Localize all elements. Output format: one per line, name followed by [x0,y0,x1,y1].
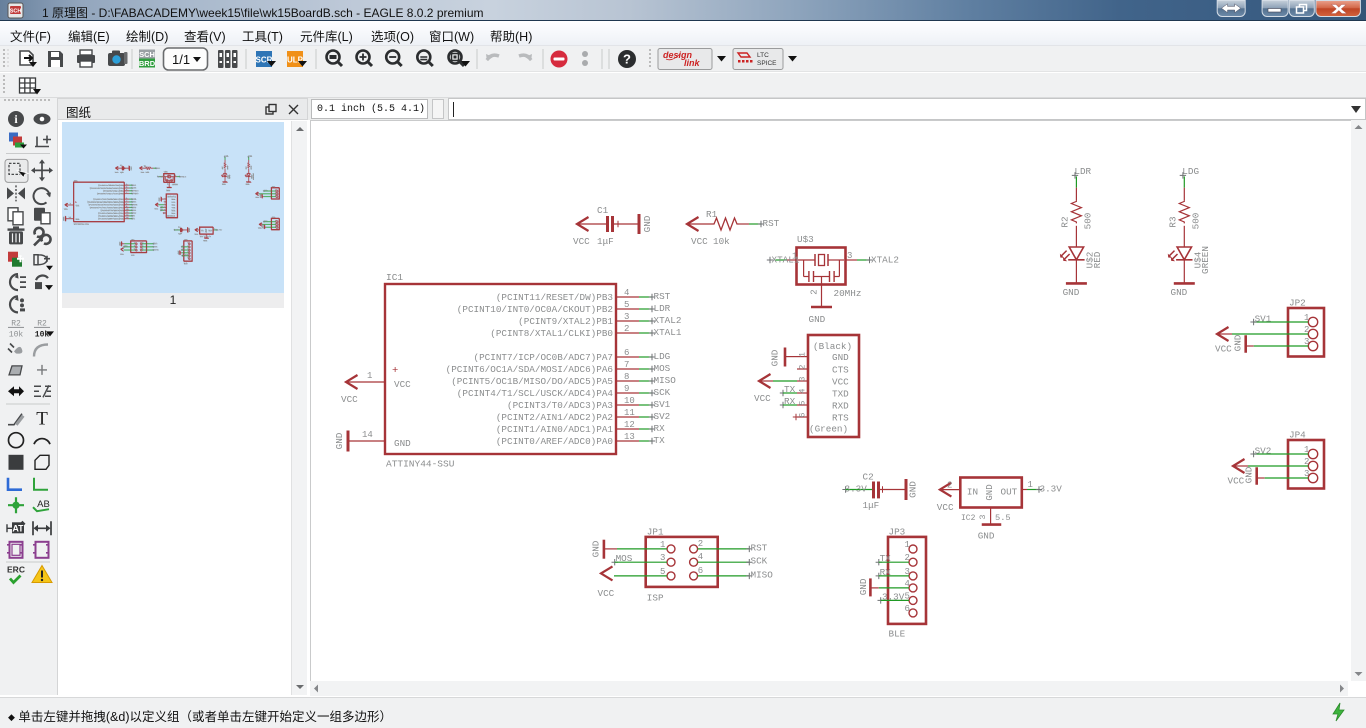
svg-text:SPICE: SPICE [757,60,777,67]
svg-text:AB: AB [37,499,50,510]
svg-text:LTC: LTC [757,52,769,59]
svg-text:SCH: SCH [10,9,22,15]
svg-text:link: link [684,58,700,68]
svg-text:ERC: ERC [7,565,25,575]
svg-text:BRD: BRD [139,59,156,68]
svg-text:?: ? [623,52,631,67]
svg-text:AT: AT [12,523,24,533]
svg-text:10k: 10k [9,330,24,339]
svg-text:T: T [36,409,48,430]
svg-text:1/1: 1/1 [172,52,190,67]
svg-text:SCH: SCH [139,50,155,59]
